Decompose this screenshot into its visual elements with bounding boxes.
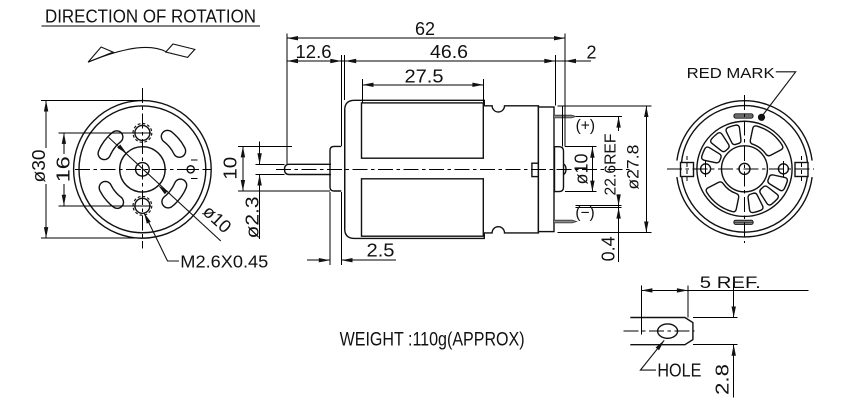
magnet lower	[362, 179, 484, 236]
back horizontal centerline	[667, 168, 814, 170]
10 dim line	[242, 146, 244, 191]
dia10 leader arrows	[117, 145, 128, 156]
22.6REF dim line top	[618, 117, 620, 131]
ext block face	[564, 34, 566, 147]
back tab left	[681, 163, 694, 177]
ext magnet left	[362, 79, 364, 103]
dia30 dim line upper	[45, 101, 47, 149]
ext block inner	[562, 106, 564, 147]
screw hole top solid	[135, 125, 150, 140]
ext line hole top	[59, 132, 152, 134]
svg-text:12.6: 12.6	[296, 42, 332, 62]
front view outer circle	[74, 101, 212, 239]
side centerline	[276, 168, 632, 170]
back rim circle	[681, 106, 808, 233]
dia10 rear ext top	[565, 146, 597, 148]
terminal block	[555, 147, 564, 192]
dia10 rear dim line	[591, 147, 593, 192]
svg-text:16: 16	[54, 156, 74, 182]
back screw right	[778, 164, 788, 174]
svg-text:ø10: ø10	[572, 153, 592, 184]
back slot top	[734, 114, 753, 118]
front vertical centerline	[141, 88, 143, 249]
front collar	[330, 146, 341, 191]
ext can rear	[554, 55, 556, 106]
back center circle	[739, 163, 750, 174]
2.8 dim line upper	[733, 284, 735, 318]
back tab right	[795, 163, 808, 177]
16 arrows	[62, 133, 66, 144]
shaft	[285, 164, 332, 174]
16 dim line upper	[63, 133, 65, 154]
ext magnet right	[482, 79, 484, 103]
dia10 rear ext bottom	[565, 191, 597, 193]
rear bearing box	[532, 163, 539, 176]
svg-text:2.5: 2.5	[367, 241, 395, 261]
title underline	[42, 25, 261, 27]
thin tab line upper	[576, 204, 622, 206]
dia30 dim line lower	[45, 184, 47, 238]
ext line circle bottom	[41, 237, 149, 239]
svg-text:0.4: 0.4	[598, 236, 618, 261]
ext can face	[344, 55, 346, 100]
back boss circle	[722, 146, 768, 192]
svg-text:(+): (+)	[576, 118, 595, 135]
dia27.8 ext bottom	[558, 232, 652, 234]
22.6REF dim line bottom + 0.4 line	[618, 198, 620, 262]
svg-text:27.5: 27.5	[405, 66, 444, 86]
screw hole bottom solid	[135, 198, 150, 213]
dia2.3 ext top	[256, 163, 285, 165]
back vents	[702, 125, 788, 212]
magnet upper	[362, 103, 484, 158]
endcap	[538, 107, 554, 232]
svg-text:10: 10	[221, 157, 241, 180]
dia2.3 ext bottom	[256, 174, 285, 176]
svg-text:ø27.8: ø27.8	[625, 145, 643, 190]
front view shaft circle	[136, 163, 150, 177]
back screw left	[701, 164, 711, 174]
ext line hole bottom	[59, 205, 152, 207]
small side hole right	[187, 166, 194, 173]
2.5 dim line right	[342, 259, 396, 261]
2.5 ext right	[341, 192, 343, 265]
svg-text:WEIGHT :110g(APPROX): WEIGHT :110g(APPROX)	[340, 330, 525, 351]
M2.6 leader arrow	[142, 212, 151, 224]
terminal outline	[630, 318, 693, 345]
22.6REF ext top	[576, 116, 622, 118]
back screw left vtick	[705, 161, 707, 177]
screw hole bottom dashed	[133, 196, 152, 215]
svg-text:DIRECTION OF ROTATION: DIRECTION OF ROTATION	[45, 7, 256, 27]
back slot bottom	[734, 220, 753, 224]
5REF ext right	[687, 285, 689, 317]
dia30 arrows	[44, 101, 48, 112]
rotation arrow head (open)	[88, 47, 113, 62]
screw hole top dashed	[133, 123, 152, 142]
16 dim line lower	[63, 184, 65, 206]
svg-text:(−): (−)	[575, 204, 594, 221]
back outer arc upper	[677, 101, 812, 161]
2.8 dim line lower	[733, 345, 735, 398]
back tab left dash	[686, 156, 688, 183]
back vertical centerline	[744, 95, 746, 243]
5REF dim line	[641, 289, 808, 291]
can front face line	[344, 110, 346, 229]
red mark dot	[758, 114, 765, 121]
front view boss circle (10mm)	[120, 147, 165, 192]
2.8 ext bottom	[693, 344, 738, 346]
10 ext top	[238, 145, 292, 147]
svg-text:HOLE: HOLE	[657, 361, 701, 381]
2.8 ext top	[693, 317, 738, 319]
12.6/46.6/2 dim line	[287, 60, 591, 62]
svg-text:ø2.3: ø2.3	[243, 197, 263, 239]
svg-text:M2.6X0.45: M2.6X0.45	[180, 251, 268, 271]
2.5 ext left	[329, 192, 331, 265]
back vent ring circle	[697, 121, 792, 216]
5REF ext left	[640, 285, 642, 334]
front horizontal centerline	[75, 168, 211, 170]
2.5 dim line left	[307, 259, 330, 261]
thin tab line lower	[576, 207, 622, 209]
dia2.3 dim line upper	[259, 142, 261, 165]
svg-text:46.6: 46.6	[430, 42, 468, 62]
ext line circle top	[41, 100, 143, 102]
back tab right dash	[801, 156, 803, 183]
dia10 leader diagonal	[109, 137, 221, 241]
side hole crosshair	[185, 168, 198, 170]
rotation arrow tail parallelogram	[166, 44, 195, 57]
terminal centerline	[624, 330, 695, 332]
rear bump	[564, 164, 567, 175]
side hole dash below	[191, 177, 198, 179]
svg-text:22.6REF: 22.6REF	[603, 133, 620, 195]
svg-text:2: 2	[586, 43, 596, 63]
M2.6 leader line	[144, 213, 179, 261]
back screw right vtick	[782, 161, 784, 177]
62 dim line	[287, 37, 565, 39]
back outer arc lower	[677, 177, 812, 237]
rotation arrow arc	[88, 47, 166, 62]
svg-text:ø30: ø30	[29, 150, 49, 183]
terminal hole	[658, 324, 678, 338]
10 ext bottom / collar bottom ext	[238, 190, 330, 192]
ext shaft tip	[286, 34, 288, 165]
front view vent slots	[98, 130, 187, 208]
ext collar face	[340, 55, 342, 146]
motor can outline	[345, 100, 539, 238]
27.5 dim line	[363, 84, 484, 86]
front view inner rim circle	[79, 106, 206, 233]
dia27.8 dim line	[645, 106, 647, 233]
svg-text:2.8: 2.8	[712, 364, 732, 395]
side hole dash above	[191, 159, 198, 161]
svg-text:62: 62	[415, 19, 435, 39]
terminal tab bottom	[554, 220, 577, 223]
svg-text:RED MARK: RED MARK	[687, 65, 775, 82]
dia27.8 ext top	[558, 105, 652, 107]
red mark leader	[763, 72, 796, 116]
terminal tab top	[554, 115, 576, 118]
HOLE leader	[640, 340, 664, 370]
svg-text:ø10: ø10	[199, 201, 235, 237]
dia2.3 dim line lower	[259, 175, 261, 240]
svg-text:5 REF.: 5 REF.	[700, 273, 761, 292]
